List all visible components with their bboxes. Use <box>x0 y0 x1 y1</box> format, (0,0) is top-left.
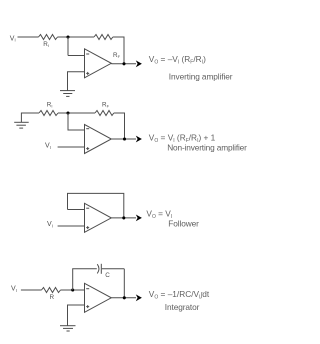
output arrow <box>136 294 142 301</box>
wire capacitor to right corner <box>102 268 125 270</box>
output arrow <box>136 215 142 222</box>
svg-text:Follower: Follower <box>168 219 199 229</box>
op-amp U3 triangle <box>85 203 112 232</box>
wire RF to right corner <box>114 112 125 114</box>
op-amp U1 triangle <box>85 49 112 78</box>
resistor RI (zigzag) <box>39 35 58 40</box>
wire output <box>111 138 136 140</box>
wire to inverting input <box>68 209 85 211</box>
wire from Vi to R <box>21 289 42 291</box>
svg-text:R: R <box>50 294 55 301</box>
svg-text:Inverting amplifier: Inverting amplifier <box>169 72 233 82</box>
ground symbol <box>60 325 76 327</box>
resistor RI (zigzag) <box>39 111 58 116</box>
output arrow <box>136 136 142 143</box>
svg-text:VO = –VI (RF/RI): VO = –VI (RF/RI) <box>149 54 206 66</box>
svg-text:VO = –1/RC/VI∫dt: VO = –1/RC/VI∫dt <box>149 289 210 301</box>
node junction dot at RI/RF/inverting input <box>66 35 69 38</box>
resistor R (zigzag) <box>42 288 61 293</box>
wire output <box>111 63 136 65</box>
U1 plus sign <box>86 72 89 74</box>
ground symbol <box>60 90 75 92</box>
wire RF to right corner <box>113 36 124 38</box>
node output dot <box>123 296 126 299</box>
wire noninverting input to ground <box>68 72 85 91</box>
resistor RF (zigzag) <box>95 111 114 116</box>
U3 minus sign <box>86 207 89 209</box>
wire junction up and right to capacitor <box>73 269 97 290</box>
svg-text:VI: VI <box>47 221 53 228</box>
wire R to inverting input <box>61 289 85 291</box>
wire output <box>111 297 136 299</box>
wire Vi to noninverting input <box>58 146 85 148</box>
op-amp U2 triangle <box>85 125 112 154</box>
wire output <box>111 217 136 219</box>
svg-text:RF: RF <box>113 52 121 59</box>
U3 plus sign <box>86 227 89 229</box>
wire from Vi to RI <box>18 36 39 38</box>
output arrow <box>136 60 142 67</box>
wire noninverting input to ground <box>68 305 85 326</box>
node output dot <box>123 137 126 140</box>
U4 plus sign <box>86 306 89 308</box>
wire right vertical down to output node <box>123 37 125 64</box>
U2 plus sign <box>86 148 89 150</box>
svg-text:RF: RF <box>102 102 110 109</box>
wire junction down <box>67 37 69 56</box>
capacitor C curved plate <box>97 264 99 273</box>
svg-text:C: C <box>105 272 110 279</box>
wire RI to RF <box>58 112 95 114</box>
resistor RF (zigzag feedback) <box>94 35 113 40</box>
svg-text:VI: VI <box>45 143 51 150</box>
node junction dot <box>71 288 74 291</box>
wire Vi to noninverting input <box>58 225 85 227</box>
svg-text:RI: RI <box>47 102 53 109</box>
U4 minus sign <box>86 288 89 290</box>
wire junction down to inverting input <box>68 113 85 130</box>
U2 minus sign <box>86 128 89 130</box>
wire right vertical down to output node <box>123 269 125 298</box>
ground symbol left <box>14 121 29 123</box>
wire to inverting input <box>68 55 85 57</box>
node junction dot <box>66 111 69 114</box>
op-amp U4 triangle <box>85 283 112 312</box>
svg-text:VI: VI <box>11 286 17 293</box>
svg-text:Integrator: Integrator <box>165 302 200 312</box>
node output dot <box>122 62 125 65</box>
svg-text:Non-inverting amplifier: Non-inverting amplifier <box>167 143 247 153</box>
capacitor C straight plate <box>100 264 102 274</box>
svg-text:RI: RI <box>43 41 49 48</box>
wire feedback top <box>68 193 124 218</box>
wire ground up and right <box>21 113 39 122</box>
wire RI to RF <box>58 36 95 38</box>
U1 minus sign <box>86 53 89 55</box>
wire right vertical down to output node <box>124 113 126 140</box>
svg-text:VI: VI <box>10 35 16 42</box>
node output dot <box>122 216 125 219</box>
